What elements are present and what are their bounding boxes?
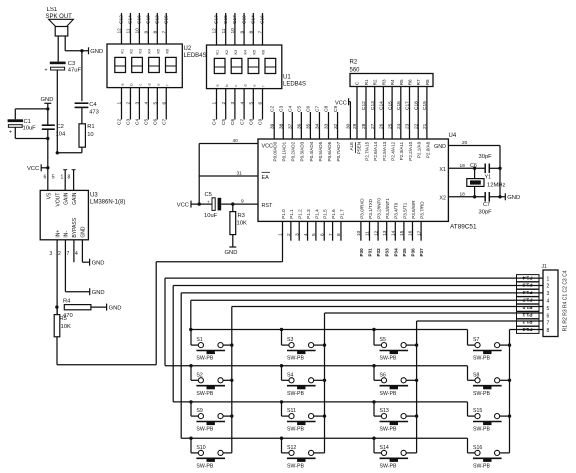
wire S16 left terminal hook — [467, 438, 469, 453]
svg-text:U1: U1 — [283, 75, 291, 81]
U1 digit 1 — [214, 58, 225, 73]
svg-text:26: 26 — [379, 123, 385, 129]
U2 bottom pin 2 wire — [129, 88, 131, 120]
node junction C1 top branch — [46, 107, 49, 110]
row 3 line — [173, 401, 467, 403]
node junction row1 / S5 hook — [372, 328, 375, 331]
svg-text:SW-PB: SW-PB — [196, 391, 213, 397]
U1 bottom pin 1 wire — [216, 89, 218, 120]
svg-text:SW-PB: SW-PB — [196, 464, 213, 470]
node junction row4 hook 3 — [372, 437, 375, 440]
svg-text:VS: VS — [47, 192, 53, 199]
svg-text:d: d — [243, 84, 247, 86]
svg-text:4: 4 — [144, 102, 150, 105]
svg-text:P3.4/T0: P3.4/T0 — [394, 202, 399, 219]
svg-text:5: 5 — [52, 175, 55, 181]
wire C1 top branch — [15, 108, 48, 110]
svg-text:33: 33 — [324, 123, 330, 129]
svg-text:30: 30 — [346, 123, 352, 129]
wire S14 left terminal hook — [373, 438, 375, 453]
svg-text:C6: C6 — [306, 106, 312, 112]
row 2 line — [165, 365, 468, 367]
svg-text:AT89C51: AT89C51 — [450, 224, 477, 231]
node junction row2 hook 2 — [280, 364, 283, 367]
svg-text:C12: C12 — [119, 15, 125, 24]
U4 top pin 36 wire P0.3 — [300, 112, 302, 139]
svg-text:SW-PB: SW-PB — [473, 391, 490, 397]
wire R5 bottom to speaker net / P1.0 — [56, 337, 58, 365]
wire S1 right terminal to column — [223, 344, 232, 346]
svg-text:SW-PB: SW-PB — [287, 356, 304, 362]
svg-text:12MHz: 12MHz — [487, 183, 505, 189]
wire S15 right terminal to column — [500, 415, 510, 417]
wire C1 bottom branch — [14, 127, 16, 138]
svg-text:GND: GND — [109, 305, 122, 311]
wire S10 left terminal hook — [190, 438, 192, 453]
net label P1.7 at J1 pin 4 — [517, 297, 540, 304]
svg-text:C18: C18 — [413, 101, 419, 110]
svg-text:P2.1/A9: P2.1/A9 — [417, 141, 422, 158]
wire S13 right terminal to column — [406, 415, 416, 417]
svg-text:c: c — [139, 84, 143, 86]
svg-text:Y1: Y1 — [485, 175, 492, 181]
svg-text:VCC: VCC — [262, 144, 273, 150]
svg-text:K4: K4 — [148, 49, 152, 54]
svg-text:P0.7/AD7: P0.7/AD7 — [336, 141, 341, 161]
svg-text:P1.2: P1.2 — [522, 319, 532, 325]
svg-text:11: 11 — [221, 28, 227, 33]
svg-text:P32: P32 — [376, 248, 381, 257]
svg-text:LEDB4S: LEDB4S — [283, 82, 306, 88]
wire junction down to C4 — [81, 51, 83, 101]
svg-text:C3: C3 — [126, 119, 132, 125]
svg-text:P1.7: P1.7 — [339, 209, 344, 219]
svg-text:X2: X2 — [439, 196, 446, 202]
svg-text:1: 1 — [117, 102, 123, 105]
svg-text:+: + — [45, 68, 48, 74]
svg-text:P2.7/A15: P2.7/A15 — [364, 141, 369, 160]
net label P1.2 at J1 pin 7 — [517, 319, 540, 326]
svg-text:30pF: 30pF — [479, 154, 493, 160]
svg-text:10uF: 10uF — [204, 213, 218, 219]
svg-text:P3.7/RD: P3.7/RD — [420, 201, 425, 219]
U2 digit 3 — [149, 57, 160, 72]
U4 bottom pin 3 stub P1.2 — [298, 221, 300, 240]
svg-text:K1: K1 — [121, 49, 125, 54]
U4 top pin 34 wire P0.5 — [318, 112, 320, 139]
U2 digit 4 — [166, 57, 177, 72]
U4 ALE pin 30 wire — [349, 102, 351, 139]
svg-text:R4: R4 — [390, 79, 395, 85]
svg-text:IN-: IN- — [64, 231, 70, 238]
svg-text:12: 12 — [117, 28, 123, 34]
wire R3 to ground — [232, 235, 234, 247]
svg-text:7: 7 — [547, 321, 550, 327]
node junction S1 column 1 — [230, 343, 233, 346]
U2 top pin 11 wire — [129, 13, 131, 44]
U4 top pin 33 wire P0.6 — [328, 112, 330, 139]
capacitor C4 473 — [75, 102, 89, 104]
U4 top pin 25 wire P2.4 to R2 — [391, 87, 393, 140]
svg-text:10K: 10K — [61, 324, 71, 330]
svg-text:38: 38 — [278, 123, 284, 129]
svg-text:U4: U4 — [449, 133, 457, 139]
U1 top pin 12 wire — [216, 13, 218, 45]
wire C7 to GND rail / ground — [489, 196, 505, 198]
svg-text:K3: K3 — [234, 50, 238, 55]
capacitor C5 10uF (reset) — [212, 198, 215, 211]
svg-text:LS1: LS1 — [47, 7, 58, 13]
node junction S15 column 4 — [508, 414, 511, 417]
svg-text:10: 10 — [230, 28, 236, 34]
wire R1 bottom to VOUT rail — [81, 147, 83, 153]
U4 bottom pin 15 stub P3.5 — [403, 221, 405, 240]
wire junction into R5 — [56, 307, 58, 315]
svg-text:C6: C6 — [153, 119, 159, 125]
bus wire J1 pin 2 to row 3 drop — [173, 285, 543, 287]
svg-text:40: 40 — [233, 138, 239, 144]
speaker LS1 symbol — [49, 19, 74, 26]
svg-text:C19: C19 — [422, 101, 428, 110]
svg-text:VOUT: VOUT — [55, 193, 61, 207]
svg-text:VCC: VCC — [335, 101, 347, 107]
U4 top pin 24 wire P2.3 to R2 — [400, 87, 402, 140]
U4 bottom pin 5 stub P1.4 — [315, 221, 317, 240]
svg-text:SW-PB: SW-PB — [287, 391, 304, 397]
svg-text:22: 22 — [413, 123, 419, 129]
node junction S7 column 4 — [508, 343, 511, 346]
svg-text:GND: GND — [507, 195, 520, 201]
svg-text:SW-PB: SW-PB — [287, 427, 304, 433]
svg-text:+: + — [9, 130, 12, 136]
svg-text:P1.1: P1.1 — [522, 311, 532, 317]
svg-text:C9: C9 — [258, 119, 264, 125]
svg-text:VCC: VCC — [27, 166, 39, 172]
svg-text:560: 560 — [350, 68, 361, 74]
svg-text:R2: R2 — [373, 79, 378, 85]
net label P1.0 at J1 pin 5 — [517, 304, 540, 311]
svg-text:P1.2: P1.2 — [298, 209, 303, 219]
svg-text:R3: R3 — [238, 213, 245, 219]
wire C3 bottom to VOUT rail — [56, 70, 58, 153]
svg-text:SW-PB: SW-PB — [473, 427, 490, 433]
svg-text:4: 4 — [239, 102, 245, 105]
svg-text:GND: GND — [41, 97, 54, 103]
svg-text:f: f — [262, 85, 266, 87]
wire S1 left terminal hook — [190, 330, 192, 346]
U4 bottom pin 11 stub P3.1 — [369, 221, 371, 240]
node junction row4 hook 2 — [280, 437, 283, 440]
svg-text:10uF: 10uF — [23, 125, 37, 131]
svg-text:6: 6 — [44, 175, 47, 181]
svg-text:18: 18 — [460, 191, 466, 197]
svg-text:GAIN: GAIN — [63, 192, 69, 205]
U1 digit 3 — [248, 58, 259, 73]
svg-text:10: 10 — [135, 28, 141, 34]
svg-text:C5: C5 — [205, 192, 212, 198]
svg-text:R2: R2 — [350, 60, 358, 66]
U4 pin 31 wire EA — [199, 175, 258, 177]
svg-text:C16: C16 — [260, 15, 266, 24]
wire S15 left terminal hook — [467, 402, 469, 416]
svg-text:K3: K3 — [139, 49, 143, 54]
U2 bottom pin 5 wire — [156, 88, 158, 120]
U4 bottom pin 2 stub P1.1 — [290, 221, 292, 240]
svg-text:e: e — [157, 83, 161, 85]
svg-text:P3.1/TXD: P3.1/TXD — [368, 198, 373, 219]
wire S7 right terminal to column — [500, 344, 510, 346]
node junction EA tie / RST net — [198, 202, 201, 205]
U1 bottom pin 5 wire — [252, 89, 254, 120]
svg-text:d: d — [148, 83, 152, 85]
svg-text:C14: C14 — [379, 101, 385, 110]
svg-text:ALE: ALE — [349, 142, 354, 151]
U4 bottom pin 14 stub P3.4 — [394, 221, 396, 240]
svg-text:1: 1 — [278, 233, 284, 236]
U4 bottom pin 10 stub P3.0 — [360, 221, 362, 240]
U3 pin1 stub — [64, 170, 66, 191]
node junction S9 column 1 — [230, 414, 233, 417]
svg-text:b: b — [225, 84, 229, 86]
svg-text:SW-PB: SW-PB — [196, 427, 213, 433]
svg-text:3: 3 — [230, 102, 236, 105]
U2 top pin 12 wire — [121, 13, 123, 44]
node junction S4 column 2 — [323, 379, 326, 382]
svg-text:C4: C4 — [288, 106, 294, 112]
svg-text:36: 36 — [297, 123, 303, 129]
node junction C7 / GND rail — [498, 195, 501, 198]
svg-text:1: 1 — [61, 175, 64, 181]
wire S12 right terminal to column — [314, 452, 325, 454]
U2 top pin 8 wire — [156, 13, 158, 44]
svg-text:8: 8 — [153, 31, 159, 34]
U4 top pin 26 wire P2.5 to R2 — [382, 87, 384, 140]
svg-text:b: b — [130, 83, 134, 85]
node junction row4 hook 1 — [189, 437, 192, 440]
svg-text:P1.6: P1.6 — [522, 289, 532, 295]
svg-text:34: 34 — [315, 123, 321, 129]
svg-text:C4: C4 — [89, 102, 97, 108]
ground at U3 GND pin — [89, 259, 91, 266]
svg-text:C12: C12 — [361, 101, 367, 110]
svg-text:7: 7 — [258, 31, 264, 34]
svg-text:K5: K5 — [157, 49, 161, 54]
ground at crystal — [504, 193, 506, 200]
svg-text:13: 13 — [382, 230, 388, 236]
svg-text:C8: C8 — [324, 106, 330, 112]
svg-text:7: 7 — [161, 31, 167, 34]
svg-text:P1.0: P1.0 — [522, 304, 532, 310]
node junction row1 / S3 hook — [280, 328, 283, 331]
svg-text:C14: C14 — [251, 15, 257, 24]
U4 bottom pin 7 stub P1.6 — [332, 221, 334, 240]
svg-text:C7: C7 — [239, 119, 245, 125]
svg-text:C15: C15 — [163, 15, 169, 24]
svg-text:P1.5: P1.5 — [323, 209, 328, 219]
svg-text:SW-PB: SW-PB — [380, 391, 397, 397]
svg-text:5: 5 — [547, 306, 550, 312]
U2 bottom pin 6 wire — [165, 88, 167, 120]
svg-text:C5: C5 — [297, 106, 303, 112]
svg-text:P0.4/AD4: P0.4/AD4 — [309, 141, 314, 161]
svg-text:C15: C15 — [223, 15, 229, 24]
svg-text:R1 R2 R3 R4 C1 C2 C3 C4: R1 R2 R3 R4 C1 C2 C3 C4 — [563, 270, 569, 331]
crystal Y1 body — [474, 168, 476, 178]
svg-text:K2: K2 — [225, 50, 229, 55]
capacitor C3 47uF (polarized) — [50, 62, 66, 65]
svg-text:GND: GND — [434, 144, 446, 150]
svg-text:SW-PB: SW-PB — [380, 464, 397, 470]
resistor R4 470 body — [64, 305, 91, 310]
svg-text:P30: P30 — [359, 248, 364, 257]
svg-text:P1.3: P1.3 — [522, 326, 532, 332]
LED display U1 body — [207, 45, 282, 89]
bus wire J1 pin 6 to column 2 — [325, 312, 544, 314]
wire S9 right terminal to column — [223, 415, 232, 417]
wire IN- pin to ground — [64, 240, 66, 292]
svg-text:23: 23 — [405, 123, 411, 129]
svg-text:31: 31 — [237, 171, 243, 177]
ground at speaker return — [88, 47, 90, 54]
svg-text:P34: P34 — [393, 248, 398, 257]
svg-text:5: 5 — [249, 102, 255, 105]
svg-text:6: 6 — [547, 313, 550, 319]
svg-text:5: 5 — [153, 102, 159, 105]
svg-text:6: 6 — [161, 102, 167, 105]
svg-text:K6: K6 — [165, 49, 169, 54]
svg-text:PSEN: PSEN — [356, 142, 361, 155]
svg-text:C5: C5 — [144, 119, 150, 125]
svg-text:10: 10 — [356, 230, 362, 236]
svg-text:P0.3/AD3: P0.3/AD3 — [300, 141, 305, 161]
wire S2 left terminal hook — [190, 366, 192, 381]
svg-text:P3.3/INT1: P3.3/INT1 — [385, 198, 390, 219]
svg-text:17: 17 — [416, 230, 422, 236]
wire S6 right terminal to column — [406, 379, 416, 381]
svg-text:R4: R4 — [63, 299, 71, 305]
svg-text:24: 24 — [396, 123, 402, 129]
svg-text:C1: C1 — [24, 119, 31, 125]
U2 top pin 10 wire — [138, 13, 140, 44]
U4 top pin 38 wire P0.1 — [282, 112, 284, 139]
node junction C6 / GND rail — [498, 167, 501, 170]
svg-text:12: 12 — [212, 28, 218, 34]
wire S3 right terminal to column — [314, 344, 325, 346]
svg-text:39: 39 — [269, 123, 275, 129]
svg-text:P36: P36 — [411, 248, 416, 257]
U1 top pin 11 wire — [225, 13, 227, 45]
U4 pin 18 wire X2 — [448, 196, 485, 198]
svg-text:SW-PB: SW-PB — [196, 356, 213, 362]
wire GND bar down — [47, 103, 49, 125]
svg-text:R5: R5 — [399, 79, 404, 85]
svg-text:U2: U2 — [184, 46, 192, 52]
svg-text:GND: GND — [92, 261, 105, 267]
U4 top pin 39 wire P0.0 — [273, 112, 275, 139]
svg-text:P35: P35 — [402, 248, 407, 257]
svg-text:U3: U3 — [90, 193, 98, 199]
svg-text:4: 4 — [547, 299, 550, 305]
svg-text:3: 3 — [547, 291, 550, 297]
svg-text:c: c — [234, 85, 238, 87]
U1 top pin 7 wire — [262, 13, 264, 45]
net label P1.3 at J1 pin 8 — [517, 326, 540, 333]
op-amp U3 LM386 body — [40, 190, 88, 239]
wire S4 left terminal hook — [281, 366, 283, 381]
svg-text:8: 8 — [249, 31, 255, 34]
power VCC tap to rail — [40, 164, 42, 171]
svg-text:SW-PB: SW-PB — [380, 427, 397, 433]
svg-text:C17: C17 — [232, 15, 238, 24]
svg-text:8: 8 — [547, 328, 550, 334]
wire S7 left terminal hook — [467, 330, 469, 346]
svg-text:a: a — [121, 83, 125, 86]
wire S2 right terminal to column — [223, 379, 232, 381]
U2 digit 2 — [132, 57, 143, 72]
svg-text:2: 2 — [221, 102, 227, 105]
ground below R3 — [229, 246, 236, 248]
wire speaker left terminal to C3 — [57, 36, 59, 62]
svg-text:C6: C6 — [230, 119, 236, 125]
U4 bottom pin 12 stub P3.2 — [377, 221, 379, 240]
U1 top pin 9 wire — [243, 13, 245, 45]
svg-text:15: 15 — [399, 230, 405, 236]
bus wire J1 pin 7 to column 3 — [417, 320, 543, 322]
wire GND rail down to crystal caps — [499, 146, 501, 197]
bus wire J1 pin 4 to row 1 drop — [191, 299, 543, 301]
svg-text:C2: C2 — [269, 106, 275, 112]
U4 top pin 22 wire P2.1 to R2 — [417, 87, 419, 140]
svg-text:9: 9 — [144, 31, 150, 34]
svg-text:6: 6 — [258, 102, 264, 105]
svg-text:11: 11 — [365, 231, 371, 236]
svg-text:SW-PB: SW-PB — [287, 464, 304, 470]
U4 pin 20 wire GND — [448, 145, 500, 147]
wire S16 right terminal to column — [500, 452, 510, 454]
svg-text:C4: C4 — [135, 119, 141, 125]
svg-text:47uF: 47uF — [68, 67, 82, 73]
net label P1.5 at J1 pin 2 — [517, 282, 540, 289]
svg-text:C8: C8 — [249, 119, 255, 125]
U2 digit 1 — [115, 57, 126, 72]
ground at R4 — [106, 304, 108, 311]
svg-text:SW-PB: SW-PB — [380, 356, 397, 362]
svg-text:C13: C13 — [370, 101, 376, 110]
resistor R1 10 — [79, 124, 85, 147]
svg-text:8: 8 — [68, 175, 71, 181]
node junction row3 hook 2 — [280, 400, 283, 403]
wire R4 to ground — [91, 306, 107, 308]
svg-text:C5: C5 — [221, 119, 227, 125]
wire C6 to GND rail — [489, 167, 500, 169]
U4 bottom pin 6 stub P1.5 — [323, 221, 325, 240]
svg-text:14: 14 — [391, 230, 397, 236]
svg-text:P1.0: P1.0 — [281, 209, 286, 219]
svg-text:104: 104 — [56, 131, 66, 137]
svg-text:e: e — [253, 84, 257, 86]
svg-text:2: 2 — [126, 102, 132, 105]
svg-text:K5: K5 — [253, 50, 257, 55]
svg-text:37: 37 — [288, 123, 294, 129]
node junction R1 / VOUT rail — [56, 151, 59, 154]
wire IN+ pin down to R4/R5 junction — [56, 240, 58, 315]
svg-text:P33: P33 — [385, 248, 390, 257]
U2 top pin 7 wire — [165, 13, 167, 44]
U4 top pin 35 wire P0.4 — [309, 112, 311, 139]
svg-text:LEDB4S: LEDB4S — [184, 53, 207, 59]
svg-text:K6: K6 — [262, 50, 266, 55]
U1 top pin 10 wire — [234, 13, 236, 45]
